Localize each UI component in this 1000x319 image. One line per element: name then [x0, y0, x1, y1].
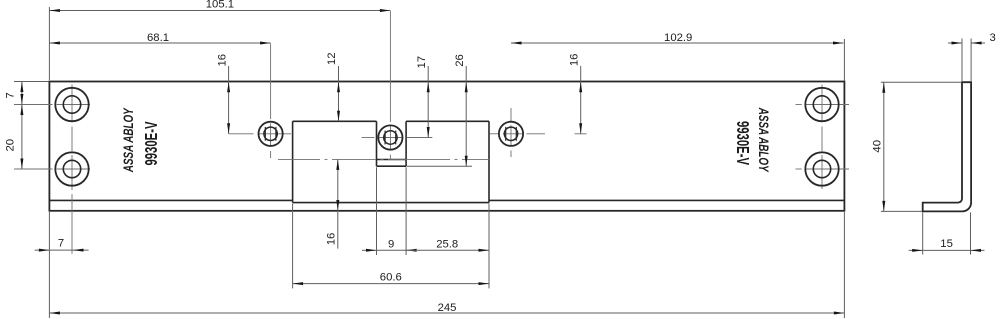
svg-text:20: 20	[5, 139, 17, 152]
svg-text:7: 7	[58, 238, 64, 250]
svg-text:25.8: 25.8	[436, 239, 458, 251]
svg-text:9930E-V: 9930E-V	[732, 121, 752, 165]
svg-text:12: 12	[326, 53, 338, 66]
svg-text:16: 16	[568, 54, 580, 67]
svg-text:105.1: 105.1	[206, 0, 234, 10]
svg-text:ASSA ABLOY: ASSA ABLOY	[120, 107, 136, 173]
svg-text:7: 7	[5, 92, 17, 98]
svg-text:16: 16	[216, 54, 228, 67]
svg-text:40: 40	[871, 140, 883, 153]
svg-text:17: 17	[416, 56, 428, 69]
svg-text:68.1: 68.1	[147, 32, 169, 44]
svg-text:3: 3	[989, 32, 995, 44]
svg-text:26: 26	[454, 54, 466, 67]
svg-text:16: 16	[326, 233, 338, 246]
svg-text:9: 9	[388, 239, 394, 251]
svg-text:9930E-V: 9930E-V	[142, 121, 162, 165]
svg-text:ASSA ABLOY: ASSA ABLOY	[755, 107, 771, 173]
svg-text:102.9: 102.9	[664, 32, 692, 44]
svg-text:245: 245	[438, 302, 457, 314]
svg-text:15: 15	[940, 238, 953, 250]
svg-text:60.6: 60.6	[380, 272, 402, 284]
